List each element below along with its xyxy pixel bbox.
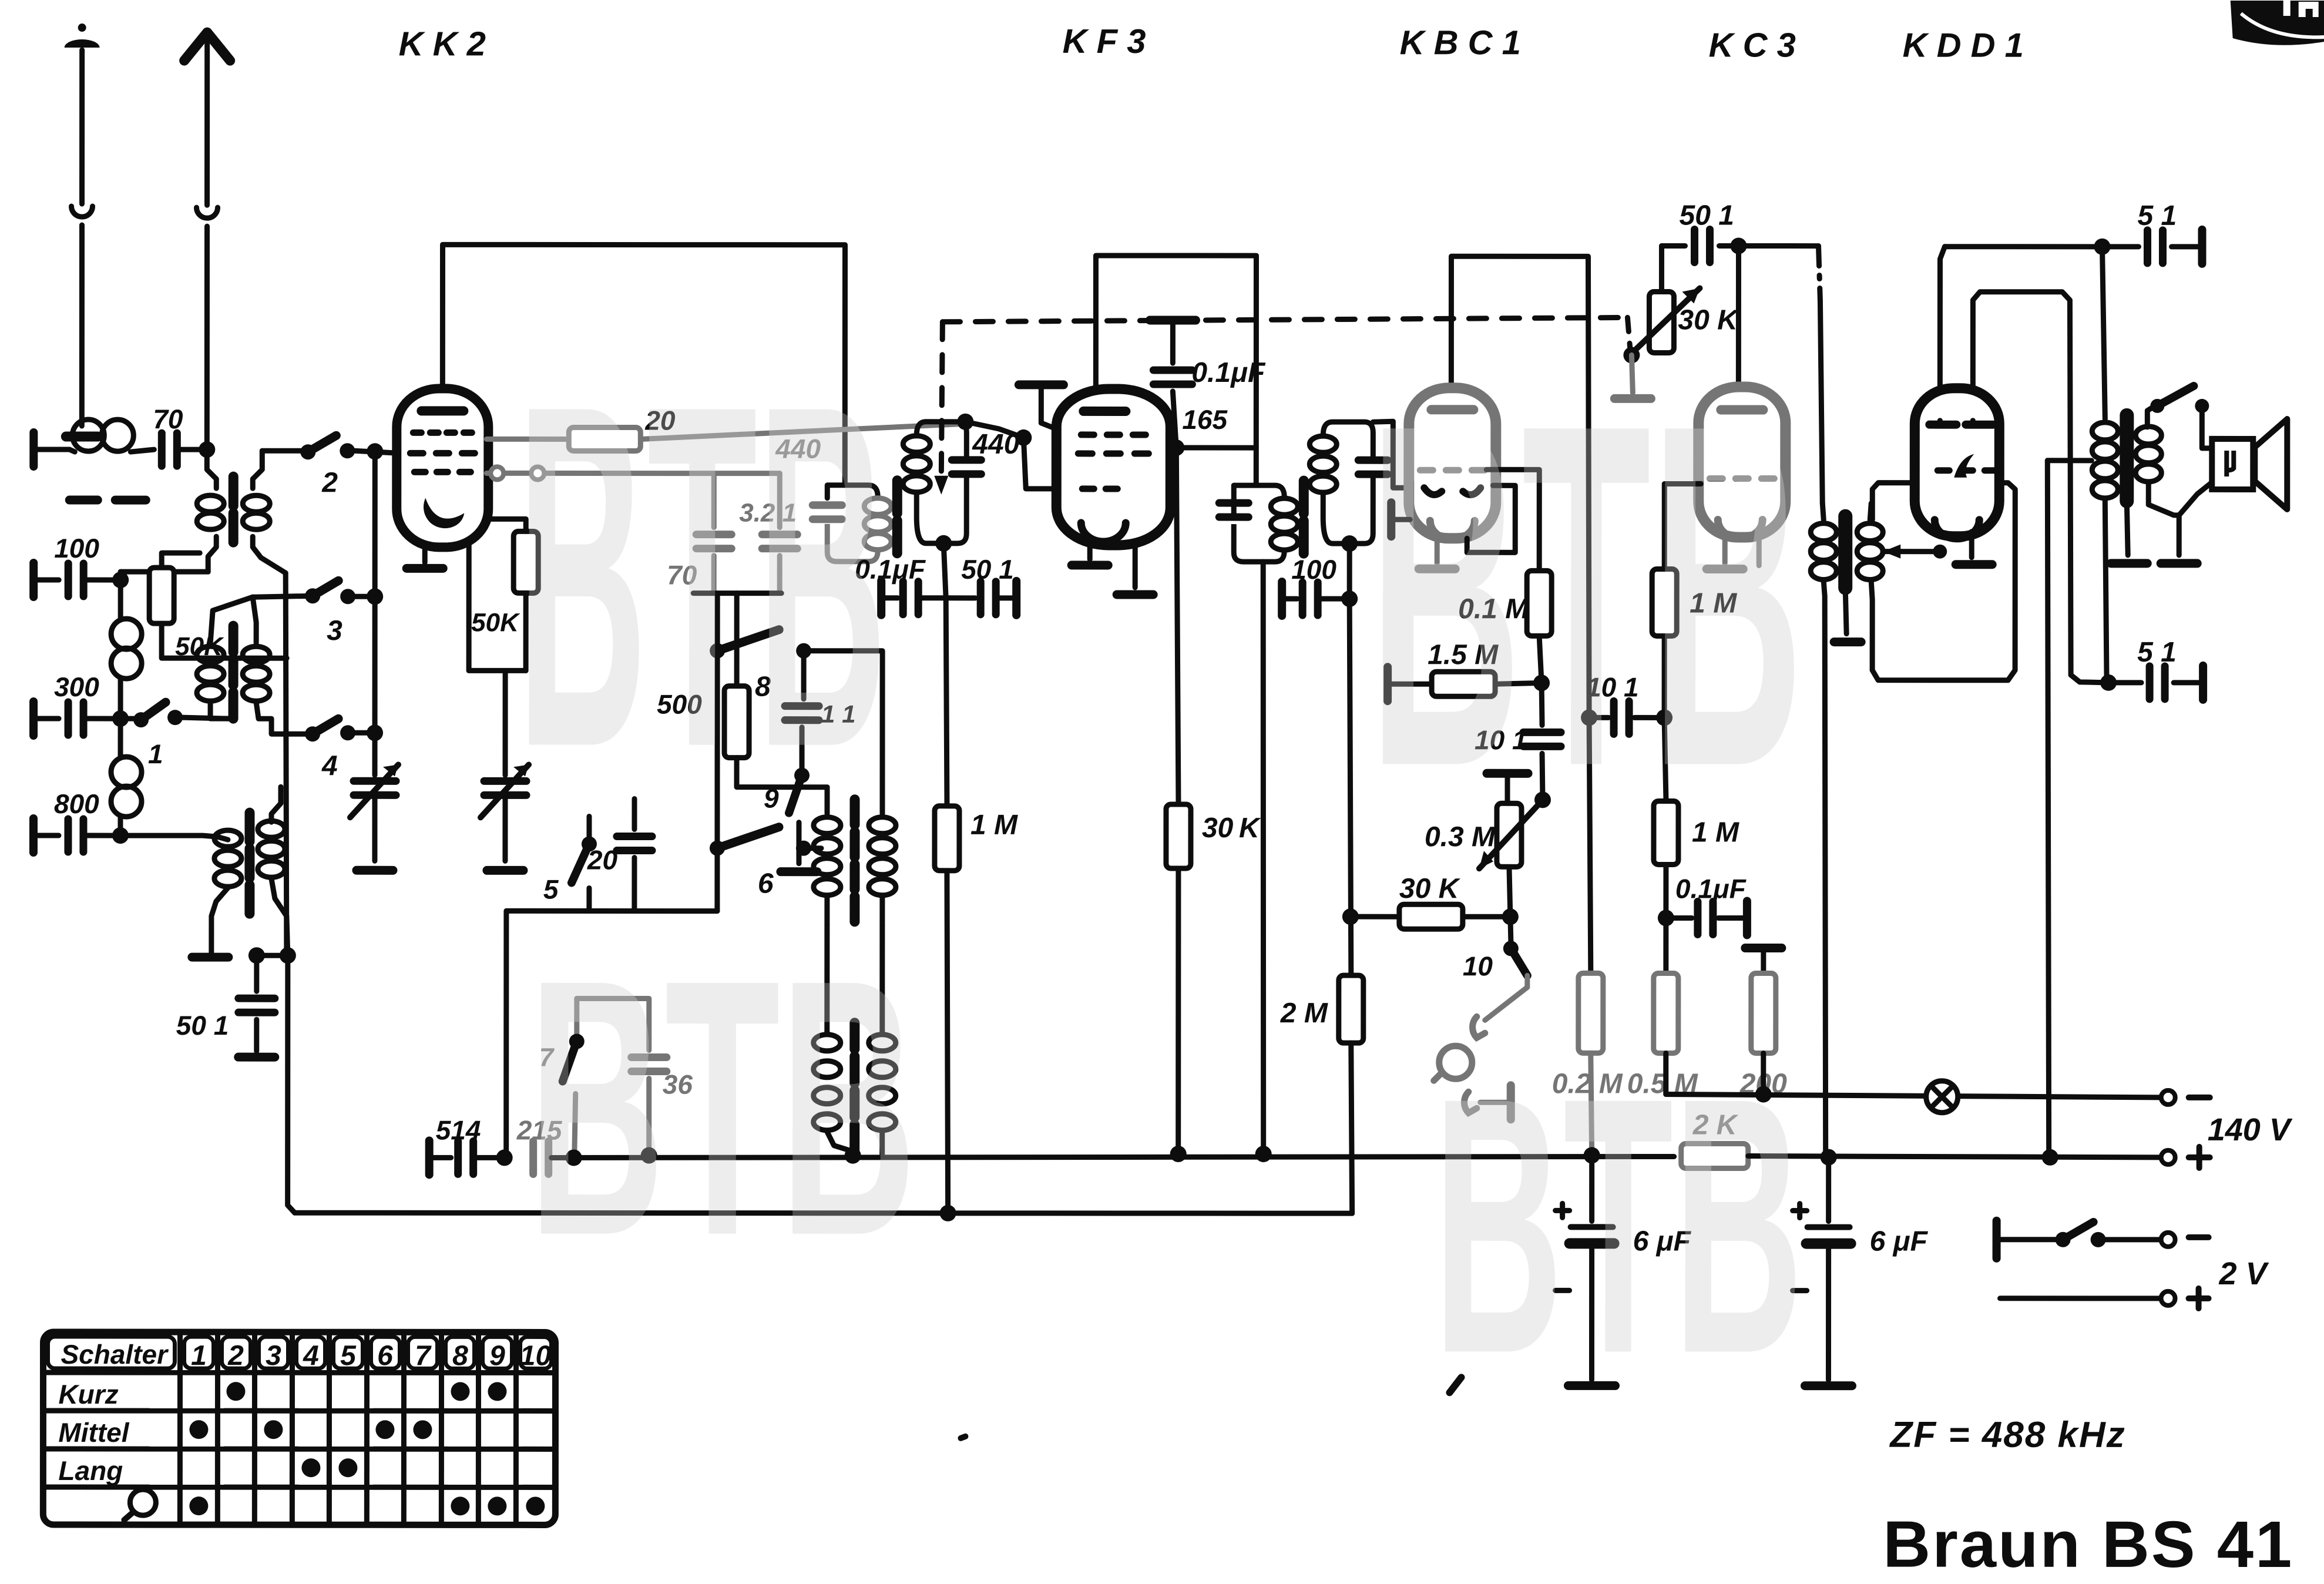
rheostat 0.3M [1487,769,1528,778]
capacitor 0.1uF [877,581,885,615]
svg-text:1: 1 [191,1340,207,1371]
wire to switch8 column [715,593,720,650]
switch 6 [714,651,720,848]
IFT2 core [1299,481,1309,553]
wire rail down from x862 [505,911,506,1157]
IFT1 core [892,481,902,553]
capacitor 100 [1278,582,1286,616]
wire IFT2 bottom down [1347,543,1352,599]
svg-text:100: 100 [54,533,99,563]
wire 0.2M to bus A [1591,1053,1592,1155]
input coil L1 [72,420,104,451]
plus terminal [2161,1150,2175,1164]
tube KK2 envelope [397,388,488,547]
svg-text:514: 514 [436,1115,481,1145]
transformer T3 core [244,813,254,914]
variable capacitor VC2 [484,781,526,795]
wire KF3 plate loop [1096,256,1256,485]
resistor 0.1M [1527,570,1551,636]
bus A (+140V feed) [429,1155,451,1160]
minus bus with lamp [1666,1094,2162,1097]
svg-text:0.1μF: 0.1μF [1675,873,1747,904]
KDD1 return loop [1871,483,2015,680]
svg-text:5: 5 [340,1340,357,1371]
switch 5 [586,816,592,844]
svg-text:5 1: 5 1 [2137,637,2177,668]
svg-text:50 1: 50 1 [961,554,1014,585]
svg-text:BTB: BTB [1369,323,1804,867]
wire IFT2 sec top to KBC1 [1373,421,1412,488]
capacitor 800 [33,833,59,838]
capacitor 501 [254,955,259,991]
node IFT1 bottom [935,535,952,552]
node IFT1 top [957,414,973,430]
node 501 junction [248,947,265,964]
node 0.1uF right [1658,910,1674,926]
tube KF3 envelope [1056,389,1170,545]
svg-text:50 1: 50 1 [176,1010,229,1041]
resistor 20 [569,427,640,451]
node IFT2 bottom [1341,535,1358,552]
oscB left coil [824,925,829,1034]
IFT2 secondary tank [1323,422,1373,461]
svg-text:K K 2: K K 2 [399,25,486,63]
capacitor 10T horizontal [1589,715,1608,720]
wire x2297 down to 2M [1349,599,1351,975]
transformer T1 core [229,476,239,542]
BTB logo corner [2231,1,2324,45]
resistor 0.5M [1654,973,1678,1053]
wire KDD1 plate2 [1973,292,2108,683]
capacitor 70 [162,433,177,466]
coil L2 [118,580,123,619]
node rheostat [1534,791,1551,808]
wire switch to speaker [2202,406,2212,448]
T3 right coil [271,787,281,822]
antenna [184,32,230,61]
2V switch terminal [1993,1221,2001,1259]
rheostat 30K top [1659,246,1664,291]
svg-text:Braun BS 41: Braun BS 41 [1883,1508,2293,1581]
bus A terminal [425,1140,434,1174]
node 1.5M [1533,674,1550,691]
wire 2M to bus C [1351,1043,1352,1213]
resistor 1M lower [1654,801,1678,864]
ground sw9 [781,867,817,876]
wire 50T top line [1661,243,1685,249]
T3 ground bar [192,953,229,962]
svg-text:2: 2 [321,467,338,498]
wire KF3 plate out [1169,445,1256,451]
transformer T2 core [229,626,239,719]
T2 right coil [253,597,256,643]
capacitor 20 (osc) [632,858,637,911]
switch 7 [574,998,579,1041]
svg-text:K D D 1: K D D 1 [1903,26,2024,65]
bus C ground return [295,1210,1352,1216]
node 300 [112,710,129,727]
capacitor 100 [33,577,59,582]
switch OT [2147,406,2155,419]
VC2 ground [487,866,523,875]
speaker horn [2255,419,2287,509]
svg-text:5: 5 [543,874,559,904]
svg-text:50 1: 50 1 [1680,200,1734,231]
resistor 30K horizontal [1342,908,1359,925]
capacitor 50T [946,595,975,600]
svg-text:2: 2 [227,1340,244,1371]
T3 left coil [217,837,228,840]
svg-text:10: 10 [1463,951,1493,981]
capacitor 1T [801,651,807,699]
wire 1M to bus C [947,871,948,1213]
svg-text:7: 7 [415,1340,432,1371]
KC3 grid wire [1662,569,1667,717]
svg-text:0.1μF: 0.1μF [1191,357,1266,388]
wire node100 to T1 [120,569,208,575]
svg-text:30 K: 30 K [1202,813,1261,844]
capacitor 215 [533,1141,549,1174]
T2 secondary wire top [253,596,313,597]
svg-text:Schalter: Schalter [61,1339,169,1370]
node 800 [112,827,129,844]
svg-text:Mittel: Mittel [58,1417,129,1448]
wire x2002 down to 30K [1176,448,1178,804]
node plus dots [566,1149,582,1166]
switch 2 [300,444,315,459]
interstage secondary [1870,504,1871,520]
svg-text:8: 8 [452,1340,468,1371]
wire sw8 contact [804,651,882,787]
tube KC3 envelope [1698,387,1785,537]
magnifier icon [130,1489,156,1515]
wire to 500 column [734,593,740,686]
tube KBC1 envelope [1409,388,1496,538]
resistor 1.5M [1383,667,1392,701]
wire input [33,447,69,452]
jack terminal [1480,1100,1507,1105]
wire 200 to minus bus [1761,1053,1766,1095]
AVC dashed line [942,317,1627,323]
OT secondary bottom [2148,482,2179,555]
VC1 ground [357,866,393,875]
svg-text:K F 3: K F 3 [1063,22,1146,61]
speaker driver [2212,439,2253,489]
switch 9 [794,768,810,783]
terminal 200 top [1745,944,1782,952]
capacitor 0.1uF lower [1666,915,1692,921]
oscA left coil [824,787,829,814]
vertical x488 [286,573,287,955]
KK2 legs [422,545,428,562]
svg-text:20: 20 [587,844,618,875]
node 50T [1730,238,1747,254]
resistor 500 [724,686,749,758]
svg-text:1: 1 [148,739,163,769]
resistor 200 [1751,974,1776,1053]
electrolytic 6uF second [1793,1204,1807,1218]
switch 3 [305,588,320,603]
lamp [1926,1081,1958,1113]
KBC1 legs [1435,538,1440,563]
wire OT primary column [2102,247,2105,419]
oscB right coil [879,925,885,1034]
2V plus wire [2000,1296,2161,1301]
KDD1 internals [1929,421,1993,429]
wire 800 to T3 [120,835,217,837]
terminal 100 [29,563,38,597]
OT tap wire [2047,458,2091,463]
wire x2705 to 0.2M [1589,717,1591,973]
wire T1 sec to switch2 [262,448,305,454]
KBC1 internals [1431,405,1473,414]
wire tap down to plus bus [2047,461,2050,1157]
svg-text:3: 3 [266,1340,281,1371]
wire KBC1 diode plate out [1486,469,1539,570]
node 100 [112,572,129,588]
wire x490 to bus C [288,955,295,1213]
wire 0.5M to minus bus [1663,1053,1668,1094]
svg-text:BTB: BTB [1433,1022,1803,1429]
IFT1 primary tank [825,485,830,498]
wire to VC2 [503,670,508,775]
wire KK2 grid line B with rings [486,471,780,476]
node oscB bus [845,1147,861,1164]
wire bus638 [372,451,378,775]
capacitor 5T lower [2108,680,2141,685]
resistor 2K [1681,1143,1748,1168]
T1 secondary coil [253,451,262,488]
capacitor 5T upper [2102,244,2138,249]
svg-text:140 V: 140 V [2208,1112,2293,1147]
coil L3 [118,719,123,757]
wire IFT1 bottom down [943,543,946,598]
wire switch2 to KK2 grid [354,451,399,453]
node antenna junction [199,441,215,458]
KF3 legs [1087,545,1093,559]
node 10T h left [1581,709,1597,726]
svg-text:440: 440 [972,429,1019,460]
wire 100 to node [86,578,120,583]
svg-text:Kurz: Kurz [58,1379,118,1410]
capacitor 70 (second) [711,474,717,528]
electrolytic 6uF first [1556,1203,1570,1217]
wire KK2 plate loop [442,244,845,485]
KC3 internals [1721,405,1763,414]
capacitor 36 [577,998,649,1050]
wire 500 bottom [737,758,827,787]
pickup ring [1439,1046,1472,1079]
oscA right coil [879,787,885,814]
svg-text:9: 9 [489,1340,505,1371]
node 440 [1015,429,1032,446]
ground 501 [239,1053,275,1062]
capacitor 0.1uF top [1150,316,1195,324]
earth electrode symbol [78,24,86,32]
svg-text:6: 6 [377,1340,393,1371]
interstage transformer primary [1822,504,1823,520]
terminal 800 [29,818,38,853]
phone jack arc 1 [1473,1016,1485,1038]
switch 4 [305,726,320,741]
wire 30K to bus A [1176,868,1181,1154]
phone jack arc 2 [1464,1092,1476,1113]
tube KDD1 envelope [1915,388,1999,536]
capacitor 3.2T [777,474,782,528]
wire 50K1 bottom [162,623,287,658]
wire KDD1 plate1 [1940,247,1944,421]
terminal 300 [29,702,38,736]
KC3 legs [1722,538,1728,563]
transformer oscA core [849,800,859,922]
switch 1 [120,716,139,721]
svg-text:K C 3: K C 3 [1709,26,1796,64]
svg-text:5 1: 5 1 [2137,200,2177,231]
wire 0.5M [1663,918,1668,973]
svg-text:K B C 1: K B C 1 [1400,24,1521,62]
jack wire [1485,975,1527,1020]
wire lineA to IFT1 [640,424,958,439]
interstage core [1838,516,1852,588]
capacitor 300 [33,716,59,721]
T1 primary coil [207,449,216,488]
OT secondary [2145,419,2150,427]
resistor 50K (KK2 cathode) [487,519,526,531]
wire x1610 down [946,598,947,806]
wire KBC1 plate loop [1451,256,1589,717]
wire sw3 to bus [355,594,375,599]
wire dashdot from 50T line [1818,246,1820,301]
AVC dashed right end [1627,317,1630,353]
KBC1 plate hook [1467,485,1515,552]
svg-text:4: 4 [321,750,338,781]
svg-text:BTB: BTB [517,303,887,848]
IFT2 primary tank [1219,503,1248,517]
svg-text:165: 165 [1182,404,1228,435]
wire 50K1 top [162,553,200,568]
wire KC3 top [1736,246,1741,388]
node switch2 bus [367,443,383,459]
wire sw4 to bus [355,730,375,736]
wire IFT1 to 440 node [965,422,1023,438]
grid tap wire [1883,549,1939,554]
variable capacitor VC1 [354,781,396,795]
wire KK2 screen line A [486,437,569,442]
node 165 [1168,439,1184,456]
wire rheostat tap [1623,347,1640,363]
svg-text:Lang: Lang [58,1455,123,1486]
KBC1 grid side terminal [1387,502,1395,536]
svg-text:4: 4 [303,1340,319,1371]
svg-text:300: 300 [54,672,99,702]
switch table [43,1332,555,1525]
svg-text:2 M: 2 M [1280,998,1328,1029]
svg-text:6 μF: 6 μF [1870,1226,1929,1257]
capacitor 514 [458,1141,473,1174]
resistor 50K (left) [149,568,174,623]
resistor 30K [1166,804,1191,868]
wire 440 node to KF3 grid [1023,438,1057,489]
resistor 2M [1339,975,1363,1043]
wire to antenna junction [180,447,207,452]
KDD1 cathode [1969,532,1974,558]
switch 8 [710,643,725,659]
svg-text:30 K: 30 K [1399,873,1461,904]
table dots [226,1382,245,1401]
wire 0.3M down [1509,867,1510,917]
KF3 internals [1083,407,1126,416]
KK2 internals [421,406,464,415]
T2 left coil [210,597,253,643]
wire top line KDD1 [1944,244,2102,249]
svg-text:ZF = 488 kHz: ZF = 488 kHz [1889,1415,2125,1455]
svg-text:1 M: 1 M [970,810,1018,841]
svg-text:6: 6 [758,868,774,900]
resistor 1M left [935,806,959,871]
wire sw1 to T2 [182,717,229,719]
wire 1M lower chain [1664,717,1666,801]
speaker return [2179,482,2212,515]
svg-text:50K: 50K [471,608,520,637]
OT core [2120,415,2134,501]
svg-text:100: 100 [1291,554,1336,585]
wire 0.1M down [1539,636,1542,683]
svg-text:10: 10 [520,1340,552,1371]
svg-text:800: 800 [54,788,99,819]
KF3 grid cap terminal [1019,380,1063,389]
wire osc bottom rail [506,908,717,914]
resistor 1M upper [1652,569,1677,636]
svg-text:BTB: BTB [529,904,916,1311]
IFT1 secondary tank [916,422,966,461]
svg-text:2 V: 2 V [2219,1256,2269,1291]
svg-text:3: 3 [327,615,342,646]
resistor 0.2M [1579,973,1603,1053]
minus terminal [2161,1090,2175,1105]
switch 10 [1510,917,1511,941]
wire caps bottoms [693,590,781,596]
transformer oscB core [849,1023,859,1151]
capacitor 10T vert [1542,683,1542,725]
input terminal [29,432,38,467]
wire x2150 IFT2 primary down [1263,562,1264,1154]
